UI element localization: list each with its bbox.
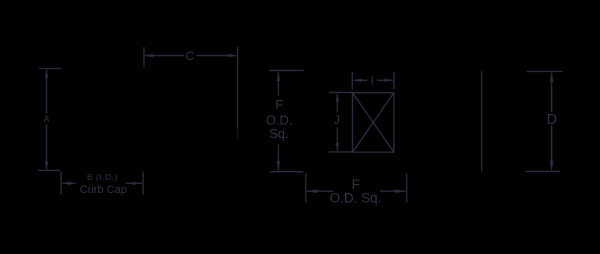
object edge line (right view) <box>481 71 483 171</box>
svg-text:Sq.: Sq. <box>269 126 289 141</box>
dim C arrow right <box>228 54 236 58</box>
dim F vertical arrow down <box>277 161 281 171</box>
dim D tick bottom <box>526 170 560 172</box>
dim F horizontal extension line left <box>305 173 307 202</box>
dim F horizontal extension line right <box>406 173 408 202</box>
svg-text:O.D.: O.D. <box>266 112 293 127</box>
dim D arrow up <box>550 72 554 82</box>
dim B extension line left <box>60 172 62 195</box>
damper square <box>353 93 394 153</box>
dim J arrow down <box>336 143 340 152</box>
dim A arrow down <box>45 162 49 170</box>
dim D line lower segment <box>551 125 553 170</box>
dim D line upper segment <box>551 73 553 113</box>
dim C extension line left <box>143 47 145 67</box>
dim J tick bottom <box>329 151 352 153</box>
dim A line upper segment <box>46 70 48 114</box>
dim J line lower segment <box>336 128 338 151</box>
dim F vertical line upper segment <box>277 72 279 96</box>
dim C extension line right <box>237 47 239 129</box>
svg-text:J: J <box>334 115 340 127</box>
dim I line left segment <box>354 79 368 81</box>
dim F horizontal arrow right <box>395 189 405 193</box>
dim C arrow left <box>145 54 153 58</box>
dim I arrow right <box>385 79 394 83</box>
dim B line right segment <box>126 182 143 184</box>
dim C line left segment <box>145 55 184 57</box>
dim A line lower segment <box>46 124 48 169</box>
svg-text:F: F <box>275 97 283 112</box>
svg-text:B (I.D.): B (I.D.) <box>87 172 118 182</box>
dim B arrow right <box>132 182 140 186</box>
dim F vertical tick bottom <box>270 171 304 173</box>
dim J tick top <box>329 91 353 93</box>
dim D arrow down <box>550 161 554 171</box>
svg-text:I: I <box>371 76 374 88</box>
dim J line upper segment <box>336 94 338 112</box>
svg-text:Curb Cap: Curb Cap <box>80 184 127 196</box>
dim F horizontal line right segment <box>380 190 406 192</box>
svg-text:A: A <box>43 114 49 124</box>
svg-text:O.D. Sq.: O.D. Sq. <box>330 190 382 205</box>
dim I arrow left <box>353 79 362 83</box>
dim B extension line right <box>142 172 144 195</box>
dim D tick top <box>527 70 562 72</box>
damper diagonal 2 <box>353 93 394 153</box>
dim F horizontal arrow left <box>307 189 317 193</box>
dim A extension tick bottom <box>38 169 60 171</box>
svg-text:C: C <box>186 49 195 63</box>
dim C line right segment <box>197 55 237 57</box>
dim F horizontal line left segment <box>307 190 333 192</box>
svg-text:D: D <box>547 112 557 128</box>
dim B line left segment <box>63 182 76 184</box>
dim I extension line right <box>393 72 395 90</box>
dim F vertical tick top <box>270 69 304 71</box>
dim F vertical arrow up <box>277 71 281 81</box>
dim I extension line left <box>351 72 353 90</box>
damper diagonal 1 <box>353 93 394 153</box>
dim I line right segment <box>377 79 393 81</box>
dim J arrow up <box>336 93 340 102</box>
dim F vertical line lower segment <box>277 145 279 171</box>
dim B arrow left <box>62 182 70 186</box>
dim A extension tick top <box>39 68 62 70</box>
dim A arrow up <box>45 69 49 77</box>
